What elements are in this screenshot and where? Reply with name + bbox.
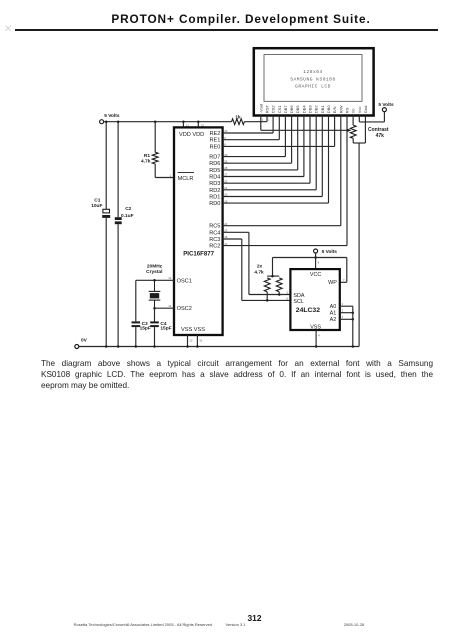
wire A-pins ground drop [352,306,354,346]
wire RD6 to LCD DB6 [223,116,292,164]
svg-text:47k: 47k [376,133,385,139]
svg-text:24LC32: 24LC32 [296,307,320,314]
svg-text:DB1: DB1 [320,105,325,114]
svg-text:A0: A0 [330,304,337,310]
svg-text:DB7: DB7 [283,105,288,114]
potentiometer Contrast 47k [350,125,356,138]
wire 5V rail [104,121,267,123]
svg-text:DB0: DB0 [326,105,331,114]
body paragraph [41,359,433,392]
svg-text:C1: C1 [94,197,100,203]
label 20MHz Crystal [146,263,163,275]
svg-text:4.7k: 4.7k [141,159,151,165]
svg-text:Vo: Vo [351,108,356,113]
svg-text:12: 12 [189,338,193,342]
svg-text:RE0: RE0 [210,144,221,150]
svg-text:PIC16F877: PIC16F877 [183,251,214,258]
svg-text:CS1: CS1 [277,105,282,114]
svg-text:4.7k: 4.7k [254,269,264,275]
svg-text:3: 3 [342,315,344,319]
capacitor C2 0.1uF [115,217,122,224]
pin numbers 5 6 SDA SCL [287,291,289,301]
svg-text:RST: RST [265,105,270,114]
svg-text:E/N: E/N [332,106,337,113]
svg-text:RE1: RE1 [210,138,221,144]
svg-text:RE2: RE2 [210,131,221,137]
svg-text:RD1: RD1 [209,195,220,201]
svg-text:RD2: RD2 [209,188,220,194]
pin numbers PIC right side [224,129,228,246]
wire A0 to ground drop [340,305,353,307]
svg-text:VSS VSS: VSS VSS [181,327,205,333]
wire R1 top lead [154,122,156,153]
svg-text:DB3: DB3 [308,105,313,114]
svg-text:DB6: DB6 [289,105,294,114]
wire C4 to ground [154,327,156,346]
node 5V terminal (top left) [100,120,104,124]
svg-text:2: 2 [268,118,270,122]
wire RC5 to LCD R/W [223,116,341,226]
crystal X1 20MHz [149,280,161,308]
wire 5V to VCC net [273,253,347,258]
svg-text:Gnd: Gnd [363,106,368,114]
IC U1 PIC16F877 body [174,127,223,335]
svg-text:SDA: SDA [293,293,304,299]
wire ground drop from contrast network [358,143,360,347]
capacitor C3 15pF [132,321,141,327]
svg-text:RS: RS [345,107,350,113]
svg-text:RC2: RC2 [209,244,220,250]
label C2 0.1uF [121,206,134,219]
wire 0V ground rail [79,346,359,348]
junction dot OSC1 [153,279,156,282]
wire pullup top to VCC net [267,258,279,277]
node 0V terminal [75,345,79,349]
svg-text:OSC2: OSC2 [177,306,192,312]
wire RC3 to SCL [223,239,291,300]
contrast wiper arrowhead [347,129,352,133]
wire LCD Vo to contrast pot [352,116,354,126]
svg-text:2x: 2x [257,264,263,270]
svg-text:1: 1 [342,302,344,306]
wire RP2 bottom to SDA [278,292,280,295]
svg-text:VSS: VSS [310,325,321,331]
labels PIC right-side pins [209,131,220,250]
wire C2 branch upper [117,122,119,218]
svg-text:RD5: RD5 [209,168,220,174]
wire contrast pot bottom to LCD Gnd [353,116,365,144]
wire RD1 to LCD DB1 [223,116,323,197]
svg-text:VDD VDD: VDD VDD [179,132,204,138]
label C3 15pF [140,321,151,332]
resistor RP2 4.7k (SDA pull-up) [276,278,282,292]
junction dots on 5V rail [105,120,200,123]
label C4 15pF [160,321,171,332]
label R1 4.7k [141,153,151,165]
labels LCD pin names (rotated) [258,103,368,113]
junction dot RP1-SCL [266,299,269,302]
svg-text:0.1uF: 0.1uF [121,213,134,219]
resistor RP1 4.7k (SCL pull-up) [264,278,270,292]
wire VDD pin stubs [183,122,198,128]
svg-text:2: 2 [342,309,344,313]
svg-text:5 Volts: 5 Volts [322,249,338,255]
wire LCD pin 1 -Vout to contrast wiper [261,116,347,131]
svg-text:1: 1 [262,118,264,122]
pin numbers 1 2 3 A0 A1 A2 [342,302,344,319]
page number 312 [248,613,262,623]
svg-text:RD4: RD4 [209,175,220,181]
wire VSS pin stubs PIC [188,335,198,347]
wire C2 branch lower [117,224,119,346]
wire crystal to C4 [154,308,156,321]
svg-text:SAMSUNG KS0108: SAMSUNG KS0108 [290,76,336,82]
label 128x64 SAMSUNG KS0108 GRAPHIC LCD [290,69,336,90]
wire RE0 to LCD E/N [223,116,335,147]
pin numbers 12 31 [189,338,202,342]
svg-text:128x64: 128x64 [303,69,323,75]
wire RE1 to LCD CS1 [223,116,280,140]
svg-text:31: 31 [199,338,203,342]
wire A2 to ground drop [340,318,353,320]
svg-text:Vcc: Vcc [357,107,362,114]
svg-text:VCC: VCC [310,272,321,278]
wire RD5 to LCD DB5 [223,116,298,170]
svg-text:14: 14 [168,304,172,308]
junction dot RP2-SDA [278,293,281,296]
wire RC4 to SDA [223,232,291,294]
pin numbers 11 32 [186,123,204,127]
svg-text:MCLR: MCLR [178,176,194,182]
scan artifact top-left [6,26,12,32]
wire A1 to ground drop [340,312,353,314]
header rule [15,29,439,31]
wire LCD Vcc to 5V terminal [359,112,384,122]
svg-text:5 Volts: 5 Volts [104,113,120,119]
IC U2 24LC32 body [290,269,339,330]
svg-text:R1: R1 [144,153,150,159]
LCD module outer body [254,48,374,115]
wire RE2 to LCD CS2 [223,116,274,134]
wire C1 branch lower [105,218,107,347]
LCD display window [264,55,362,102]
svg-text:A1: A1 [330,311,337,317]
label Contrast 47k [368,127,389,139]
svg-text:RC5: RC5 [209,224,220,230]
svg-text:DB5: DB5 [295,105,300,114]
svg-text:RD0: RD0 [209,201,220,207]
pin numbers 1 2 on LCD [262,118,270,122]
svg-text:1k: 1k [235,114,241,120]
wire RD4 to LCD DB4 [223,116,304,177]
svg-text:5 Volts: 5 Volts [378,102,394,108]
svg-text:0V: 0V [81,338,88,344]
svg-text:8: 8 [318,260,320,264]
wire R1 to MCLR [155,164,174,178]
svg-text:4: 4 [318,334,320,338]
junction dot VCC net [314,256,317,259]
label 2x 4.7k [254,264,264,276]
svg-text:C2: C2 [125,206,131,212]
page header title [0,12,452,26]
svg-text:DB4: DB4 [301,105,306,114]
label C1 10uF [91,197,102,209]
svg-text:R/W: R/W [338,105,343,113]
junction dots A1 A2 [352,311,355,320]
svg-text:OSC1: OSC1 [177,278,192,284]
capacitor C1 10uF (electrolytic) [102,209,110,218]
svg-text:RD3: RD3 [209,181,220,187]
footer line [74,622,212,627]
capacitor C4 15pF [150,321,159,327]
wire RD3 to LCD DB3 [223,116,310,184]
wire LCD pin 2 RST to 1k [266,116,268,122]
svg-text:1: 1 [170,173,172,177]
svg-text:RD7: RD7 [209,155,220,161]
wire OSC1 [136,280,174,321]
svg-text:15pF: 15pF [160,326,171,332]
wire RD7 to LCD DB7 [223,116,286,157]
node 5V terminal (LCD) [382,108,386,112]
svg-text:20MHz: 20MHz [147,263,163,269]
wire RD0 to LCD DB0 [223,116,329,204]
resistor 1k (LCD reset pull-up) [232,119,245,125]
svg-text:-Vout: -Vout [258,103,263,113]
svg-text:GRAPHIC LCD: GRAPHIC LCD [295,84,331,90]
svg-text:RC4: RC4 [209,230,220,236]
wire RD2 to LCD DB2 [223,116,317,190]
svg-text:15pF: 15pF [140,326,151,332]
svg-text:A2: A2 [330,317,337,323]
svg-text:WP: WP [328,280,337,286]
junction dots on ground rail [105,345,354,348]
wire C1 branch upper [105,122,107,209]
wire OSC2 [155,307,175,309]
wire WP to VCC net [340,258,347,283]
wire C3 to ground [135,327,137,346]
wire VSS pin stub [315,330,317,347]
junction dot pullup top [271,275,274,278]
svg-text:7: 7 [343,278,345,282]
svg-text:Crystal: Crystal [146,269,162,275]
wire RP1 bottom to SCL [266,292,268,301]
svg-text:13: 13 [168,276,172,280]
junction dot OSC2 [153,307,156,310]
svg-text:RC3: RC3 [209,237,220,243]
svg-text:CS2: CS2 [271,105,276,114]
wire RC2 to LCD RS [223,116,347,246]
svg-text:10uF: 10uF [91,203,102,209]
svg-text:DB2: DB2 [314,105,319,114]
label MCLR with overline [178,173,194,182]
node 5V terminal (eeprom) [314,249,318,253]
svg-text:RD6: RD6 [209,161,220,167]
svg-text:SCL: SCL [293,299,304,305]
resistor R1 4.7k [152,152,158,164]
wire VCC pin stub [315,258,317,270]
